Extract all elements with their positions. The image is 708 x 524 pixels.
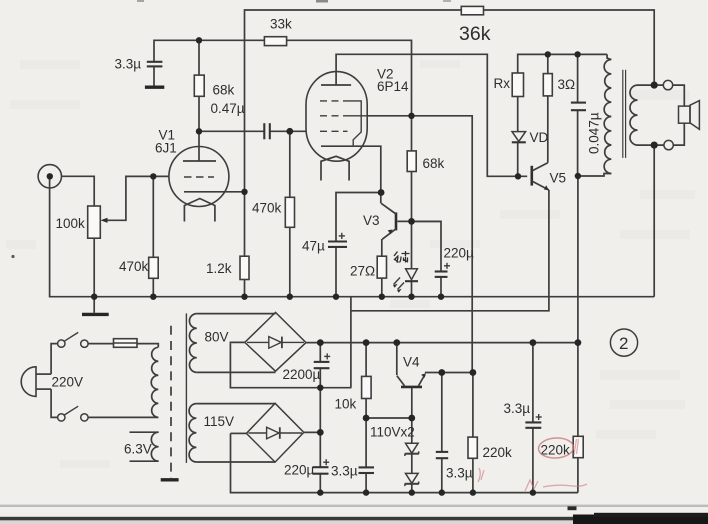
wire grid leak drop	[152, 176, 154, 257]
node ground LED	[408, 294, 414, 300]
node secondary top	[651, 82, 658, 89]
resistor 1.2k cathode	[206, 256, 249, 279]
mains transformer primary 220V	[151, 347, 158, 417]
wire 68k bottom to anode node	[198, 96, 200, 161]
wire rail2 right segment to screen drop	[287, 40, 412, 116]
svg-text:220µ: 220µ	[284, 463, 315, 478]
wire V2 grid resistor bottom	[289, 227, 291, 296]
node anode top 3ohm	[545, 51, 551, 57]
secondary side bar line	[185, 313, 187, 463]
wire pot bottom	[93, 238, 95, 297]
wire V1 anode to coupling cap	[199, 130, 264, 132]
faint bleedthrough smudges	[6, 60, 695, 468]
wire V2 grid resistor drop	[289, 131, 291, 197]
node bplus riser	[575, 339, 582, 346]
svg-text:220µ: 220µ	[444, 246, 475, 261]
node ground 470k	[287, 294, 293, 300]
capacitor 3.3u input filter	[115, 57, 163, 86]
wire Rx top corner	[518, 54, 607, 73]
node ground 27ohm	[379, 294, 385, 300]
svg-text:2: 2	[619, 334, 628, 353]
red pen scribbles	[478, 439, 587, 491]
node bplus 2200u	[317, 339, 324, 346]
speaker	[679, 101, 700, 130]
svg-text:36k: 36k	[459, 23, 491, 45]
wire V5 emitter drop	[351, 190, 549, 311]
resistor 220k bleeder	[541, 436, 584, 457]
wire input jack to pot	[62, 176, 95, 206]
node ground 47u	[333, 294, 339, 300]
wire grid leak bottom	[152, 278, 154, 296]
node V1 anode	[196, 128, 202, 134]
label green char	[394, 251, 410, 263]
zener diodes 110Vx2	[370, 425, 419, 487]
svg-text:6.3V: 6.3V	[124, 442, 152, 457]
wire mains bottom	[88, 416, 158, 418]
capacitor 3.3u bplus filter	[504, 401, 542, 428]
wire 33u c drop	[532, 343, 534, 423]
svg-text:220V: 220V	[52, 375, 84, 390]
scan fragments top edge	[316, 0, 328, 3]
wire screen line V2 to regulator drop	[367, 116, 472, 373]
svg-text:V5: V5	[550, 171, 567, 186]
capacitor 220u psu	[284, 459, 329, 477]
output transformer core	[623, 70, 626, 158]
wire bridge2 minus link	[231, 432, 247, 434]
core ground bar	[161, 478, 179, 481]
resistor 470k V2 grid	[252, 197, 295, 227]
node bottom rail 33ua	[363, 489, 369, 495]
wire 47u bottom	[335, 247, 337, 297]
wire screen dropper 68k segment top	[411, 116, 413, 151]
node ground gridleak	[150, 294, 156, 300]
wire zener chain	[411, 418, 413, 443]
node bridge2 plus	[317, 429, 324, 436]
svg-text:115V: 115V	[204, 414, 235, 429]
capacitor 0.47u coupling	[211, 101, 270, 139]
LED green	[393, 269, 418, 293]
resistor Rx	[494, 73, 524, 97]
svg-text:27Ω: 27Ω	[350, 264, 375, 279]
svg-text:10k: 10k	[335, 397, 357, 412]
wire Rx bottom to VD	[517, 97, 519, 132]
wire V3 emitter to 27ohm	[381, 239, 383, 256]
wire 220k1 bottom	[472, 458, 474, 492]
wire 047 cap bottom to primary bottom	[578, 110, 612, 176]
node zener top left	[363, 415, 370, 422]
resistor 36k	[459, 6, 491, 45]
capacitor 47u cathode bypass	[302, 233, 347, 254]
wire LED bottom	[411, 282, 413, 297]
wire 220u bottom	[440, 277, 442, 297]
wire stack link bridge2 plus	[304, 388, 321, 433]
wire 63V bottom lead	[130, 460, 159, 462]
circled figure number 2	[610, 329, 637, 356]
svg-text:220k: 220k	[483, 445, 513, 460]
node bottom rail 220u	[317, 489, 323, 495]
switch pole bottom	[58, 406, 89, 421]
wire base node to LED	[411, 221, 413, 268]
wire wiper to V1 grid	[107, 176, 170, 220]
ground bar input	[82, 313, 109, 316]
wire zener bottom	[411, 484, 413, 493]
node V1 cathode	[241, 189, 247, 195]
wire V2 anode riser	[336, 54, 527, 176]
scan speck left	[11, 255, 14, 258]
wire terminal to speaker top	[673, 85, 685, 106]
svg-text:80V: 80V	[205, 330, 229, 345]
mains plug	[21, 344, 83, 418]
wire V4 emitter line	[425, 372, 473, 374]
node V4 emitter 220k	[470, 369, 477, 376]
wire secondary bottom to terminal	[638, 144, 665, 146]
winding 80V	[189, 314, 228, 373]
wire 1.2k bottom	[244, 280, 246, 297]
node V4 emitter 33ub	[438, 369, 445, 376]
wire 220u top link	[412, 221, 442, 271]
svg-text:68k: 68k	[213, 83, 235, 98]
svg-text:3Ω: 3Ω	[558, 77, 576, 92]
wire pot ground stub	[93, 297, 95, 313]
wire V1 cathode out	[216, 191, 245, 193]
wire 2200u minus rail	[230, 344, 351, 388]
wire 220k2 drop	[577, 343, 579, 437]
wire 047 cap top stub	[577, 54, 579, 102]
svg-text:68k: 68k	[423, 156, 445, 171]
svg-text:110Vx2: 110Vx2	[370, 425, 415, 440]
resistor 10k	[335, 376, 372, 411]
wire V4 base drop	[411, 388, 413, 419]
wire 80V top lead	[197, 313, 276, 315]
wire 115V bottom lead	[196, 461, 275, 463]
red pen circle around 220k	[538, 437, 574, 459]
wire secondary top to terminal	[638, 84, 664, 86]
svg-text:6P14: 6P14	[377, 79, 409, 94]
wire V4 collector riser	[396, 343, 398, 375]
node 2200u minus	[317, 385, 323, 391]
wire B+ riser to primary	[577, 176, 579, 343]
wire 33u c bottom	[532, 428, 534, 493]
wire 2200u top stub	[319, 343, 321, 362]
wire V3 base link	[397, 220, 441, 222]
svg-text:470k: 470k	[252, 201, 282, 216]
diode VD	[512, 130, 549, 145]
svg-text:2200µ: 2200µ	[283, 367, 321, 382]
svg-text:3.3µ: 3.3µ	[115, 57, 142, 72]
capacitor 220u bias	[435, 246, 474, 277]
node V3 base	[408, 218, 415, 225]
node bottom rail 33ub	[439, 489, 445, 495]
svg-text:1.2k: 1.2k	[206, 261, 232, 276]
ground below 3.3u	[145, 85, 164, 88]
node rail2 68k	[196, 37, 202, 43]
wire coupling cap to V2 grid node	[270, 130, 307, 132]
output terminal top	[663, 80, 672, 89]
winding 115V	[189, 404, 234, 462]
node anode top 047u	[574, 51, 580, 57]
resistor 33k	[264, 17, 292, 46]
wire feedback rail right of 36k	[484, 10, 655, 85]
resistor 3ohm	[543, 74, 575, 96]
wire terminal to speaker bottom	[673, 123, 684, 145]
node bottom rail 33uc	[530, 489, 536, 495]
wire B+ rail2 left segment	[154, 40, 264, 61]
wire V5 collector riser	[547, 96, 549, 163]
output terminal bottom	[664, 140, 673, 149]
wire 220u2 bottom	[319, 474, 321, 493]
bridge rectifier 2	[246, 403, 303, 462]
svg-text:V3: V3	[363, 213, 380, 228]
svg-text:33k: 33k	[270, 17, 292, 32]
wire 10k top	[365, 343, 367, 377]
resistor 27ohm	[350, 256, 387, 278]
wire 3ohm top stub	[547, 54, 549, 73]
tube V2 6P14	[306, 67, 409, 181]
node bottom rail 220k	[470, 489, 476, 495]
node ground 220u	[438, 294, 444, 300]
wire 33u b bottom	[441, 458, 443, 492]
node secondary bottom	[651, 142, 658, 149]
resistor 220k regulator	[468, 437, 512, 460]
wire 47u top link	[336, 193, 381, 242]
svg-text:3.3µ: 3.3µ	[446, 466, 473, 481]
node screen	[408, 113, 414, 119]
mains transformer 6.3V winding	[124, 432, 159, 461]
wire main ground rail	[50, 176, 655, 296]
wire 27ohm bottom	[381, 278, 383, 297]
wire 33u b drop	[441, 373, 443, 452]
capacitor 3.3u regulator	[436, 452, 473, 481]
capacitor 0.047u	[571, 103, 602, 154]
output transformer secondary	[630, 85, 638, 145]
node bplus 10k	[363, 339, 370, 346]
node bplus V4	[393, 339, 400, 346]
fuse	[114, 339, 138, 348]
mains transformer core dashed	[170, 326, 172, 478]
node V4 base	[408, 415, 415, 422]
node V2 cathode 47u	[378, 189, 385, 196]
wire bottom rail	[231, 433, 578, 492]
wire 115V top lead	[196, 403, 275, 405]
svg-text:0.47µ: 0.47µ	[211, 101, 245, 116]
switch pole top	[58, 332, 89, 347]
svg-text:6J1: 6J1	[155, 141, 177, 156]
svg-text:VD: VD	[530, 130, 549, 145]
node primary bottom	[575, 173, 581, 179]
page edge line bottom	[0, 505, 708, 524]
wire 68k top from rail2	[198, 40, 200, 75]
wire 220u2 drop	[319, 432, 321, 467]
wire 80V bottom lead	[197, 371, 276, 373]
wire zener mid	[411, 454, 413, 474]
node ground pot	[91, 294, 97, 300]
wire 68k2 to base node	[411, 172, 413, 222]
wire VD to base node	[517, 143, 519, 177]
node V1 grid	[150, 173, 156, 179]
capacitor 2200u	[283, 353, 331, 382]
wire mains top with fuse	[88, 344, 158, 348]
input jack	[38, 165, 61, 188]
wire bridge1 minus link	[230, 342, 244, 343]
resistor 68k screen dropper	[407, 151, 444, 172]
node bottom rail zener	[409, 489, 415, 495]
transistor V5	[532, 163, 566, 191]
wire 220k1 drop	[472, 373, 474, 438]
black scan band bottom-right	[568, 506, 708, 524]
transistor V4	[397, 355, 426, 387]
svg-text:V4: V4	[403, 355, 420, 370]
bridge rectifier 1	[245, 312, 306, 371]
wire 10k bottom to zener link	[366, 399, 412, 419]
resistor 470k V1 grid leak	[119, 257, 158, 278]
wire B+ rail bottom	[306, 342, 578, 344]
svg-text:0.047µ: 0.047µ	[587, 112, 602, 154]
wire primary top entry	[607, 54, 611, 59]
resistor 68k V1 plate	[194, 75, 234, 97]
wire 63V top lead	[130, 431, 159, 433]
wire 33u a bottom	[365, 473, 367, 493]
svg-text:Rx: Rx	[494, 76, 511, 91]
svg-text:3.3µ: 3.3µ	[331, 464, 358, 479]
wire 33u a drop	[365, 418, 367, 467]
node V2 grid	[286, 128, 293, 135]
capacitor 3.3u zener filter	[331, 464, 374, 479]
tube V1 6J1	[155, 128, 229, 222]
wire feedback top rail	[245, 10, 462, 192]
node bplus 33uc	[530, 339, 537, 346]
output transformer primary	[604, 60, 611, 174]
svg-text:100k: 100k	[56, 216, 86, 231]
wire ground link PSU	[350, 297, 352, 388]
svg-text:3.3µ: 3.3µ	[504, 401, 531, 416]
svg-text:47µ: 47µ	[302, 239, 325, 254]
wire cathode to 1.2k	[244, 192, 246, 256]
potentiometer 100k	[56, 206, 108, 238]
node ground 1.2k	[241, 294, 247, 300]
wire 2200u bottom stub	[319, 368, 321, 388]
wire 220k2 bottom	[577, 458, 579, 493]
wire V2 cathode out	[353, 146, 381, 203]
wire secondary bottom to ground rail	[653, 145, 655, 297]
node VD base	[515, 173, 521, 179]
svg-text:470k: 470k	[119, 259, 149, 274]
transistor V3	[363, 203, 396, 239]
